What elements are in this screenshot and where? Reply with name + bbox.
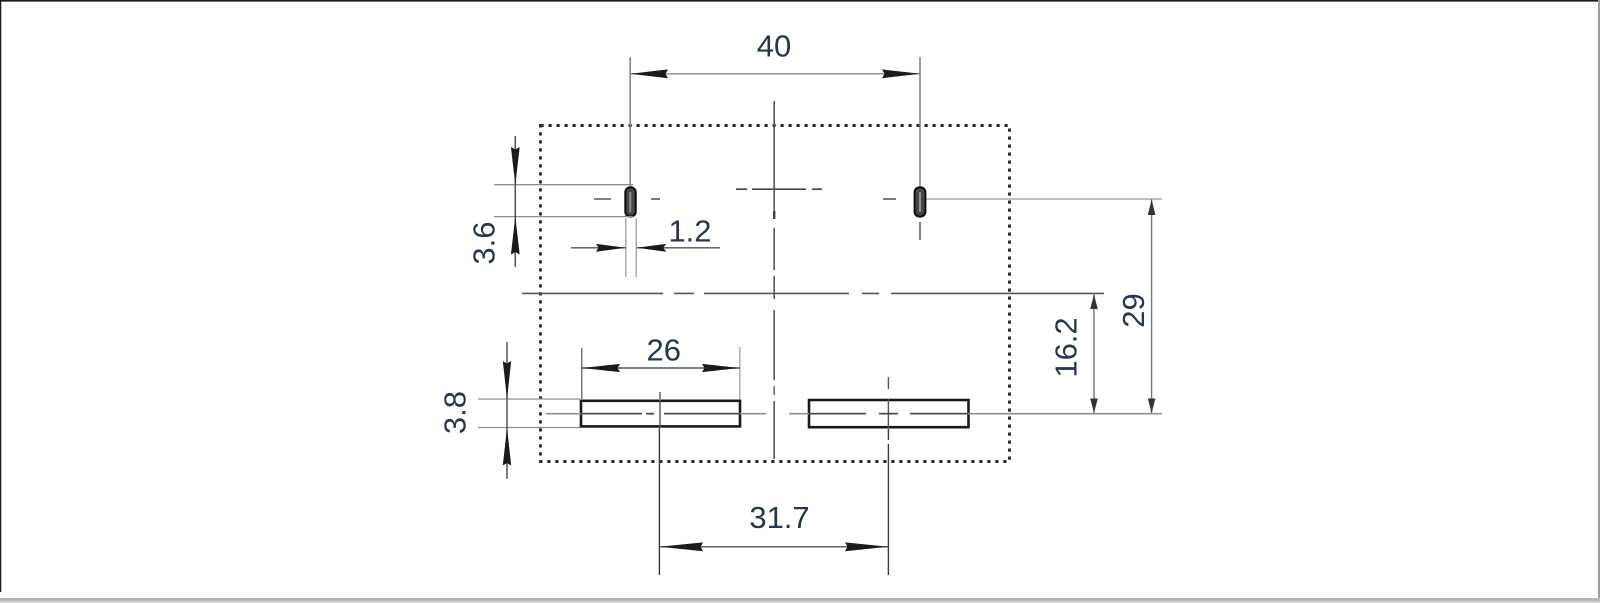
- dimension 16.2 line: [1093, 294, 1095, 413]
- dimension 29 line: [1151, 199, 1153, 413]
- vertical part centerline: [773, 101, 775, 459]
- dimension 3.8 line: [506, 342, 508, 479]
- dimension 3.6 line: [514, 136, 516, 267]
- right pin centerline stub below: [919, 222, 921, 240]
- dimension 29 bottom arrow: [1148, 399, 1156, 414]
- dimension 1.2 right arrow: [637, 244, 667, 252]
- dimension 40 right arrow: [882, 69, 920, 78]
- slot row centerline (dash-dot): [546, 413, 1162, 415]
- svg-text:1.2: 1.2: [668, 214, 711, 249]
- dimension 3.8 bottom arrow: [503, 428, 511, 466]
- dimension 16.2 bottom arrow: [1090, 399, 1098, 414]
- dimension 3.8 top arrow: [503, 361, 511, 399]
- dimension 16.2 top arrow: [1090, 295, 1098, 310]
- dimension 31.7 left arrow: [660, 542, 703, 551]
- left pin centerline dashes: [594, 198, 660, 200]
- left slot centerline stub above: [659, 392, 661, 399]
- left slot extension to 31.7 dim: [658, 428, 660, 575]
- right pin: [915, 187, 926, 216]
- pin row center cross: [736, 188, 822, 190]
- right pin centerline dash: [883, 198, 896, 200]
- dimension 29 top arrow: [1148, 200, 1156, 216]
- dimension 3.6 bottom arrow: [511, 217, 520, 255]
- svg-text:29: 29: [1116, 293, 1151, 327]
- left slot vertical centerline inside: [659, 400, 661, 427]
- svg-text:40: 40: [757, 29, 791, 64]
- dimension 1.2 line left segment: [571, 247, 626, 249]
- right slot: [809, 400, 969, 427]
- dimension 26 line: [582, 367, 740, 369]
- dimension 1.2 left arrow: [596, 244, 626, 252]
- right slot vertical centerline inside: [887, 399, 889, 428]
- dimension 26 left arrow: [582, 364, 620, 372]
- left pin extension line (vertical, for 40 dim): [629, 57, 631, 186]
- left pin: [625, 187, 635, 216]
- svg-text:31.7: 31.7: [749, 500, 809, 535]
- svg-text:3.8: 3.8: [438, 391, 473, 434]
- right slot centerline stub above: [887, 377, 889, 389]
- right pin extension line (vertical, for 40 dim): [919, 57, 921, 186]
- right pin extension line to 29 dimension: [927, 198, 1163, 200]
- dimension 31.7 line: [659, 546, 888, 548]
- horizontal part centerline: [522, 292, 1104, 294]
- svg-text:3.6: 3.6: [467, 221, 502, 264]
- dimension 26 right arrow: [702, 364, 740, 372]
- dimension 26 extension lines: [581, 348, 583, 399]
- component outline (dotted rectangle): [541, 126, 1010, 462]
- dimension 1.2 line right segment: [637, 247, 720, 249]
- dimension 3.6 extension lines: [494, 184, 633, 186]
- dimension 3.6 top arrow: [511, 147, 520, 185]
- svg-text:26: 26: [647, 333, 681, 368]
- dimension 31.7 right arrow: [845, 542, 888, 551]
- svg-text:16.2: 16.2: [1049, 317, 1084, 377]
- left pin slot edge extensions (for 1.2 dim): [625, 218, 627, 277]
- dimension 40 left arrow: [630, 69, 668, 78]
- dimension 3.8 extension lines: [478, 398, 580, 400]
- dimension 40 line: [630, 73, 920, 75]
- right slot extension to 31.7 dim: [887, 429, 889, 440]
- left slot: [581, 401, 740, 427]
